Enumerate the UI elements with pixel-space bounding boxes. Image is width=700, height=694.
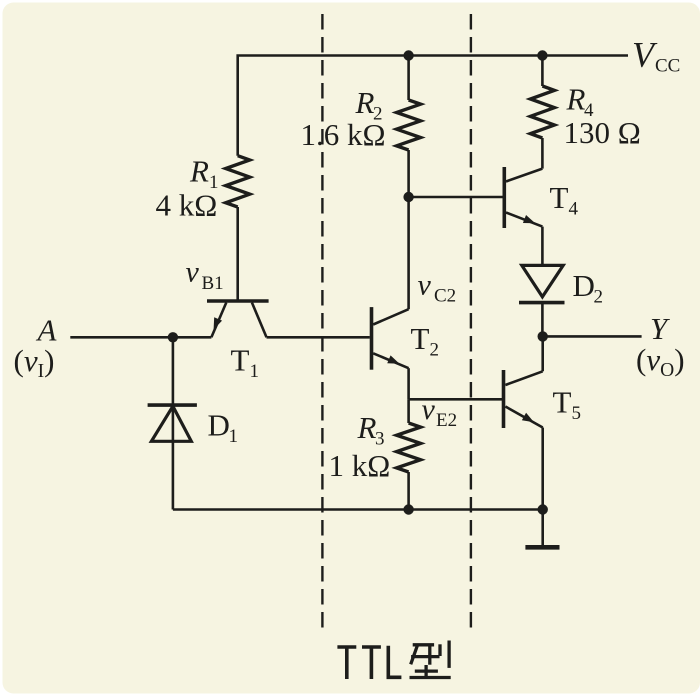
wire output Y <box>543 335 642 338</box>
node dot rail-R4 <box>537 50 547 60</box>
svg-text:R: R <box>566 82 586 117</box>
svg-text:C2: C2 <box>434 286 456 307</box>
svg-text:T: T <box>553 385 572 420</box>
wire VCC top rail with left drop to R1 <box>238 56 628 156</box>
svg-text:v: v <box>186 256 200 289</box>
svg-text:130 Ω: 130 Ω <box>564 115 641 150</box>
svg-text:R: R <box>357 410 377 445</box>
wire output node down to T5 collector <box>541 336 544 371</box>
svg-text:1: 1 <box>250 361 260 382</box>
node dot bottom-T5 <box>538 504 548 514</box>
wire T2 emitter down to vE2 <box>407 368 410 399</box>
wire right trunk top (rail to R4) <box>541 56 544 87</box>
node dot input <box>168 332 178 342</box>
resistor R4 <box>530 86 554 138</box>
transistor T1 <box>207 301 269 337</box>
wire node vC2 to T4 base <box>409 196 505 199</box>
svg-text:1: 1 <box>229 426 239 447</box>
wire T1 collector to T2 base <box>267 336 370 339</box>
svg-text:4 kΩ: 4 kΩ <box>156 188 218 223</box>
transistor T2 <box>372 307 409 370</box>
svg-text:R: R <box>355 85 375 120</box>
diode D2 <box>519 265 565 302</box>
node dot vC2 <box>403 192 413 202</box>
wire vE2 down to R3 <box>407 399 410 423</box>
wire vE2 to T5 base <box>409 398 504 401</box>
dashed partition line left <box>321 14 323 629</box>
svg-text:T: T <box>411 321 430 356</box>
wire middle trunk top (rail to R2) <box>407 56 410 101</box>
resistor R1 <box>226 156 250 207</box>
transistor T5 <box>504 370 543 428</box>
svg-text:(vI): (vI) <box>14 343 55 382</box>
wire R3 bottom to bottom rail <box>407 472 410 510</box>
wire T5 emitter down to ground <box>541 428 544 548</box>
caption TTL letters <box>337 646 401 680</box>
svg-text:4: 4 <box>569 199 579 220</box>
resistor R3 <box>397 423 421 472</box>
svg-text:2: 2 <box>430 340 440 361</box>
svg-text:T: T <box>550 180 569 215</box>
transistor T4 <box>504 167 542 228</box>
node dot output <box>538 331 548 341</box>
dashed partition line right <box>470 14 472 629</box>
svg-text:E2: E2 <box>436 410 457 431</box>
svg-text:CC: CC <box>655 56 680 77</box>
svg-text:Y: Y <box>650 311 670 346</box>
svg-text:R: R <box>189 154 209 189</box>
wire R1 bottom to T1 base <box>236 207 239 300</box>
svg-text:1 kΩ: 1 kΩ <box>329 448 391 483</box>
wire D1 branch vertical <box>172 337 175 509</box>
svg-text:1.6 kΩ: 1.6 kΩ <box>301 117 386 152</box>
wire bottom rail <box>173 508 543 511</box>
node dot bottom-R3 <box>403 504 413 514</box>
svg-text:v: v <box>422 393 436 426</box>
resistor R2 <box>397 100 421 150</box>
svg-text:3: 3 <box>375 429 385 450</box>
diode D1 <box>148 405 197 441</box>
caption CJK char xing <box>410 641 451 678</box>
wire R4 bottom to T4 collector <box>541 138 544 169</box>
node dot rail-R2 <box>403 50 413 60</box>
ground <box>525 545 559 550</box>
wire D2 to output node <box>541 303 544 337</box>
svg-text:2: 2 <box>594 287 604 308</box>
svg-text:v: v <box>418 269 432 302</box>
svg-text:5: 5 <box>572 403 582 424</box>
wire T4 emitter to D2 <box>541 227 544 266</box>
svg-text:D: D <box>208 408 230 443</box>
svg-text:D: D <box>573 268 595 303</box>
svg-text:T: T <box>231 343 250 378</box>
svg-text:B1: B1 <box>202 273 224 294</box>
wire vC2 node down to T2 collector <box>407 197 410 309</box>
wire R2 bottom to node vC2 <box>407 150 410 197</box>
wire input A <box>70 336 211 339</box>
